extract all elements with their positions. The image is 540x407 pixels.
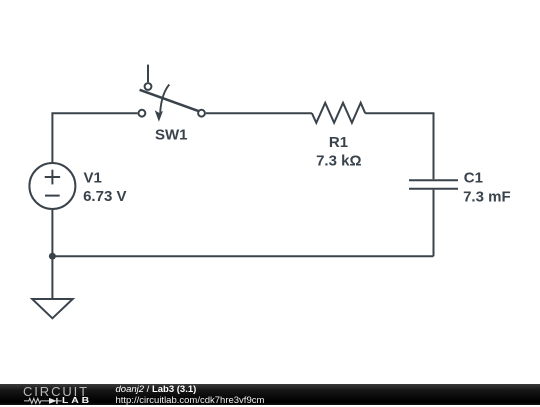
logo CIRCUIT text [23, 387, 89, 397]
resistor R1 [312, 103, 365, 123]
footer line 2 [116, 396, 265, 406]
wire bottom horizontal [52, 255, 433, 257]
switch SW1 arrowhead [155, 110, 163, 122]
switch SW1 actuator arrow [160, 85, 169, 113]
svg-text:V1: V1 [84, 169, 102, 186]
svg-text:7.3 mF: 7.3 mF [463, 188, 511, 205]
logo schematic glyph [14, 395, 84, 407]
wire capacitor bottom [433, 190, 435, 257]
capacitor C1 plates [409, 179, 458, 181]
svg-text:7.3 kΩ: 7.3 kΩ [316, 152, 361, 169]
switch SW1 blade [140, 90, 200, 112]
footer bar [0, 384, 540, 405]
wire resistor to capacitor [365, 113, 433, 179]
switch SW1 terminals [145, 83, 152, 90]
junction node [49, 253, 56, 260]
svg-text:R1: R1 [329, 134, 348, 151]
logo resistor [24, 398, 49, 403]
wire V1 bottom to ground [51, 209, 53, 299]
logo LAB text [62, 397, 92, 405]
voltage source V1 [29, 163, 75, 209]
ground [32, 299, 72, 318]
svg-text:SW1: SW1 [155, 127, 188, 144]
footer line 1 [116, 385, 197, 395]
wire top-left horizontal [52, 113, 137, 163]
switch SW1 stub [147, 65, 149, 83]
svg-text:6.73 V: 6.73 V [83, 188, 126, 205]
logo diode [57, 399, 62, 401]
wire switch to resistor [206, 112, 312, 114]
svg-text:C1: C1 [464, 170, 483, 187]
